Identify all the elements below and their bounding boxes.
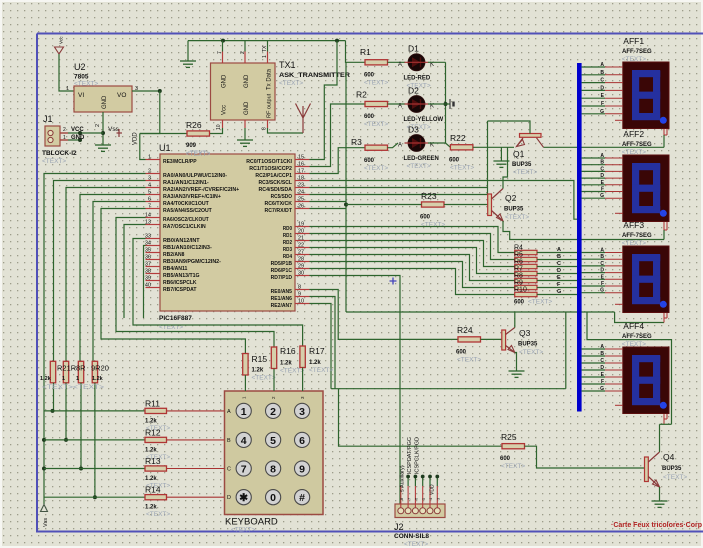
AFF4 segment pin D (582, 369, 605, 371)
svg-text:C: C (600, 78, 604, 84)
key 7 (236, 461, 251, 476)
svg-text:17: 17 (298, 169, 304, 175)
svg-text:AFF-7SEG: AFF-7SEG (622, 142, 652, 148)
wire pin6 RA4 to R20 (93, 202, 146, 362)
junction dot rail row B (42, 438, 46, 442)
svg-text:3: 3 (148, 176, 151, 182)
svg-text:2: 2 (148, 169, 151, 175)
wire R9 to bus (537, 287, 577, 289)
svg-text:26: 26 (298, 204, 304, 210)
U1 left pin 6 RA4/T0CKI/C1OUT (146, 201, 161, 203)
junction dot TX rail (221, 39, 225, 43)
svg-text:A: A (398, 104, 402, 110)
U1 left pin 3 RA1/AN1/C12IN1- (146, 180, 161, 182)
pin 7 TX1 GND (222, 52, 224, 64)
svg-text:RA5/AN4/SS/C2OUT: RA5/AN4/SS/C2OUT (163, 208, 212, 214)
transistor Q4 BUP35 (645, 457, 649, 482)
svg-text:1: 1 (62, 376, 65, 382)
resistor R15 (243, 354, 248, 376)
LED D2 (408, 96, 425, 113)
svg-text:600: 600 (514, 300, 525, 306)
svg-text:29: 29 (298, 264, 304, 270)
svg-text:LED-RED: LED-RED (404, 76, 431, 82)
svg-text:<TEXT>: <TEXT> (404, 541, 428, 548)
svg-text:F: F (601, 187, 604, 193)
svg-text:8R: 8R (76, 364, 86, 373)
AFF4 dp stub (615, 404, 623, 406)
svg-text:<TEXT>: <TEXT> (501, 463, 525, 470)
svg-text:·Carte Feux tricolores·Corp: ·Carte Feux tricolores·Corp (611, 522, 702, 529)
resistor R14 (145, 495, 167, 500)
svg-text:600: 600 (420, 215, 431, 221)
svg-text:RA3/AN3/VREF+/C1IN+: RA3/AN3/VREF+/C1IN+ (163, 194, 222, 200)
svg-text:LED-GREEN: LED-GREEN (404, 156, 439, 162)
svg-text:AFF-7SEG: AFF-7SEG (622, 49, 652, 55)
wire J1 row VCC (60, 132, 103, 134)
AFF4 segment pin B (582, 355, 605, 357)
wire pin4 RA2 to R18 (66, 188, 146, 362)
svg-text:R23: R23 (421, 191, 437, 201)
U1 right pin 23 RC4/SDI/SDA (295, 187, 310, 189)
svg-text:7: 7 (241, 464, 247, 476)
U1 left pin 34 RB1/AN10/C12IN3- (146, 245, 161, 247)
U1 left pin 36 RB3/AN9/PGM/C12IN2- (146, 259, 161, 261)
segment bus vertical blue (577, 63, 582, 412)
svg-text:C: C (557, 261, 561, 267)
junction dot VCC (78, 131, 82, 135)
svg-text:RF output: RF output (267, 93, 273, 118)
svg-text:R24: R24 (457, 325, 473, 335)
svg-text:40: 40 (145, 283, 151, 289)
pin 1 TX1 TxData with TX net label (267, 52, 269, 64)
svg-text:3: 3 (299, 406, 305, 418)
svg-text:CONN-SIL8: CONN-SIL8 (394, 533, 429, 540)
svg-text:C: C (600, 166, 604, 172)
svg-text:38: 38 (145, 269, 151, 275)
J2 pin circle 2 (405, 508, 411, 514)
key 9 (295, 461, 310, 476)
resistor R21 (50, 361, 55, 383)
svg-text:TBLOCK-I2: TBLOCK-I2 (42, 150, 77, 157)
AFF3 segment pin A (582, 252, 605, 254)
svg-text:4: 4 (241, 435, 247, 447)
svg-text:PIC16F887: PIC16F887 (159, 315, 192, 322)
wire RE0 to R24 (310, 290, 459, 340)
svg-text:600: 600 (500, 456, 511, 462)
svg-text:<TEXT>: <TEXT> (622, 240, 646, 247)
svg-text:<TEXT>: <TEXT> (519, 349, 543, 356)
svg-text:ICSPCLK/PGD: ICSPCLK/PGD (415, 437, 421, 474)
resistor R18 (63, 361, 68, 383)
ground symbol under U2 (95, 144, 111, 146)
svg-text:19: 19 (298, 222, 304, 228)
AFF2 segment pin A (582, 157, 605, 159)
AFF4 segment pin A (582, 348, 605, 350)
wire R24 to Q3 base (481, 338, 502, 340)
J2 pin circle 4 (420, 508, 426, 514)
svg-text:AFF3: AFF3 (623, 220, 644, 230)
svg-text:GND: GND (244, 101, 250, 115)
svg-text:D: D (600, 365, 604, 371)
svg-text:B: B (600, 70, 604, 76)
svg-text:RA4/T0CKI/C1OUT: RA4/T0CKI/C1OUT (163, 201, 209, 207)
U1 left pin 13 RA7/OSC1/CLKIN (146, 224, 161, 226)
svg-text:1.2k: 1.2k (145, 418, 157, 424)
svg-text:<TEXT>: <TEXT> (231, 527, 255, 534)
svg-text:<TEXT>: <TEXT> (450, 165, 474, 172)
U1 right pin 28 RD5/P1B (295, 261, 310, 263)
U1 left pin 40 RB7/ICSPDAT (146, 287, 161, 289)
AFF1 segment pin A (582, 66, 605, 68)
svg-text:RB5/AN13/T1G: RB5/AN13/T1G (163, 273, 200, 279)
svg-text:<TEXT>: <TEXT> (252, 375, 276, 382)
svg-text:8: 8 (270, 464, 276, 476)
svg-text:R11: R11 (145, 398, 160, 408)
svg-text:24: 24 (298, 190, 304, 196)
wire TX rail to R1 (346, 41, 366, 63)
wire Q2 collector up to Q1 net (503, 147, 508, 188)
svg-text:U1: U1 (159, 143, 171, 153)
svg-text:G: G (600, 386, 604, 392)
wire R4 to bus (537, 252, 577, 254)
svg-text:RD4: RD4 (283, 254, 293, 260)
svg-text:R14: R14 (145, 485, 161, 495)
ground tap Q1 emitter (500, 147, 502, 161)
J2 pin circle 5 (427, 508, 433, 514)
svg-text:8: 8 (298, 285, 301, 291)
wire keyboard row A (44, 410, 167, 412)
wire pin13 RA7 down (124, 225, 146, 319)
svg-text:8: 8 (262, 127, 268, 130)
U1 left pin 5 RA3/AN3/VREF+/C1IN+ (146, 194, 161, 196)
junction dot TX corner (335, 39, 339, 43)
wire long horizontal mid (331, 388, 566, 390)
svg-text:7805: 7805 (74, 74, 89, 81)
resistor R26 (187, 131, 210, 136)
svg-text:RD1: RD1 (283, 233, 293, 239)
svg-text:600: 600 (364, 114, 375, 120)
resistor R25 (502, 444, 525, 449)
AFF4 segment pin C (582, 362, 605, 364)
svg-text:✱: ✱ (239, 492, 248, 504)
svg-text:RD2: RD2 (283, 240, 292, 246)
wire Q4 emitter to ground (659, 487, 661, 501)
J2 pin wire 5 (429, 486, 431, 508)
7-segment display AFF3 (623, 246, 669, 313)
svg-text:<TEXT>: <TEXT> (280, 368, 304, 375)
svg-text:ICSPDAT/PGC: ICSPDAT/PGC (407, 437, 413, 474)
svg-text:B: B (600, 351, 604, 357)
svg-text:BUP35: BUP35 (662, 466, 682, 472)
svg-text:R2: R2 (356, 90, 367, 100)
svg-text:<TEXT>: <TEXT> (622, 56, 646, 63)
svg-text:RD0: RD0 (283, 226, 292, 232)
svg-text:18: 18 (298, 176, 304, 182)
pin 8 TX1 RF output to antenna (267, 120, 269, 128)
wire R6 to bus (537, 266, 577, 268)
svg-text:RA0/AN0/ULPWU/C12IN0-: RA0/AN0/ULPWU/C12IN0- (163, 173, 227, 179)
resistor R10 (515, 292, 537, 296)
svg-text:Vcc: Vcc (59, 36, 64, 44)
wire RD3 to R7 (310, 248, 515, 274)
svg-text:5: 5 (270, 435, 276, 447)
svg-text:VO: VO (117, 92, 126, 99)
svg-text:RD7/P1D: RD7/P1D (271, 275, 292, 281)
svg-text:AFF1: AFF1 (623, 36, 644, 46)
wire RE2 join (310, 304, 332, 389)
svg-text:B: B (557, 254, 561, 260)
wire rail to ground left of TX1 (187, 41, 189, 61)
key ✱ (236, 490, 251, 505)
svg-text:A: A (600, 62, 604, 68)
svg-text:R25: R25 (501, 432, 517, 442)
svg-text:10: 10 (216, 124, 222, 130)
svg-text:R8: R8 (514, 273, 523, 280)
svg-text:R4: R4 (514, 245, 523, 252)
ground flag Vss bottom-left (41, 505, 48, 512)
J2 pin circle 3 (412, 508, 418, 514)
AFF4 segment pin G (582, 390, 605, 392)
svg-text:<TEXT>: <TEXT> (74, 81, 98, 88)
J2 pin circle 6 (434, 508, 440, 514)
resistor R17 (300, 346, 305, 368)
svg-text:RD3: RD3 (283, 247, 293, 253)
resistor R22 (450, 145, 473, 150)
U1 right pin 18 RC3/SCK/SCL (295, 180, 310, 182)
wire RC7 stub (310, 208, 347, 210)
wire RC3 long to bus entry (310, 181, 578, 220)
resistor R24 (458, 337, 481, 342)
svg-text:<TEXT>: <TEXT> (528, 299, 552, 306)
svg-text:RC5/SDO: RC5/SDO (271, 194, 293, 200)
wire TX top rail (188, 40, 346, 42)
svg-text:D: D (557, 268, 561, 274)
7-segment display AFF4 (623, 347, 669, 414)
svg-text:<TEXT>: <TEXT> (146, 511, 170, 518)
svg-text:D: D (600, 268, 604, 274)
svg-text:GND: GND (222, 74, 228, 88)
wire branch to AFF4 common (587, 312, 672, 424)
resistor R9 (515, 285, 537, 289)
ground symbol left of TX1 (180, 60, 196, 62)
wire U2 GND down (102, 112, 104, 145)
svg-text:C: C (600, 261, 604, 267)
svg-text:R15: R15 (252, 354, 268, 364)
svg-text:30: 30 (298, 271, 304, 277)
svg-text:B: B (227, 438, 231, 444)
svg-text:23: 23 (298, 183, 304, 189)
wire RD1 to R5 (310, 234, 515, 260)
svg-text:25: 25 (298, 197, 304, 203)
wire pin33 RB0 to R17 (133, 239, 303, 347)
svg-text:33: 33 (145, 234, 151, 240)
svg-text:1: 1 (66, 86, 69, 92)
resistor R8 (515, 278, 537, 282)
svg-text:VDD: VDD (133, 132, 139, 145)
svg-text:34: 34 (145, 241, 151, 247)
resistor R1 (365, 60, 388, 65)
wire Q2 emitter to AFF2 common (503, 221, 664, 240)
AFF3 segment pin G (582, 292, 605, 294)
svg-text:39: 39 (145, 276, 151, 282)
svg-text:<TEXT>: <TEXT> (513, 169, 537, 176)
svg-text:R17: R17 (309, 346, 325, 356)
svg-text:D1: D1 (408, 44, 419, 54)
J2 pin wire 2 (407, 486, 409, 508)
svg-text:<TEXT>: <TEXT> (364, 165, 388, 172)
U1 right pin 19 RD0 (295, 226, 310, 228)
wire pin3 RA1 to R21 (54, 181, 146, 362)
U1 right pin 10 RE2/AN7 (295, 303, 310, 305)
wire Q1 base (488, 121, 531, 134)
transmitter TX1 ASK (211, 63, 276, 120)
svg-text:s Auxiliary): s Auxiliary) (400, 465, 406, 492)
svg-text:1.2k: 1.2k (145, 447, 157, 453)
wire keyboard row C (44, 468, 167, 470)
wire R3 jog to D3 (388, 143, 399, 148)
U1 right pin 22 RD3 (295, 247, 310, 249)
svg-text:6: 6 (148, 197, 151, 203)
svg-text:4: 4 (148, 183, 151, 189)
wire R7 to bus (537, 273, 577, 275)
wire RC4 to Q1 base vertical (310, 187, 488, 189)
svg-text:R7: R7 (514, 266, 523, 273)
selection cross marker (390, 278, 397, 285)
wire keyboard row D (44, 496, 167, 498)
svg-text:1.2k: 1.2k (280, 361, 292, 367)
keypad KEYBOARD (225, 391, 324, 515)
svg-text:RA1/AN1/C12IN1-: RA1/AN1/C12IN1- (163, 180, 209, 186)
svg-text:AFF2: AFF2 (623, 129, 644, 139)
svg-text:R1: R1 (360, 47, 371, 57)
svg-text:9: 9 (299, 464, 305, 476)
svg-text:7: 7 (217, 51, 223, 54)
U1 right pin 27 RD4 (295, 254, 310, 256)
svg-text:RD5/P1B: RD5/P1B (271, 261, 292, 267)
resistor R20 (92, 361, 97, 383)
AFF1 segment pin D (582, 89, 605, 91)
U1 left pin 35 RB2/AN8 (146, 252, 161, 254)
svg-text:R9: R9 (514, 280, 523, 287)
svg-text:R21R: R21R (57, 364, 77, 373)
wire Q1 base column to Q2 (487, 121, 489, 194)
U1 right pin 29 RD6/P1C (295, 268, 310, 270)
svg-text:Vcc: Vcc (222, 105, 228, 115)
svg-text:1.2k: 1.2k (309, 360, 321, 366)
junction dot row D pullup (93, 495, 97, 499)
svg-text:<TEXT>: <TEXT> (309, 367, 333, 374)
J2 pin circle 1 (398, 508, 404, 514)
U1 left pin 37 RB4/AN11 (146, 266, 161, 268)
wire RD7 to J2 pin1 (310, 276, 401, 506)
svg-text:9: 9 (298, 292, 301, 298)
junction dot row A pullup (51, 409, 55, 413)
junction dot cathode column (444, 102, 448, 106)
AFF3 segment pin F (582, 285, 605, 287)
J2 pin wire 1 (400, 486, 402, 508)
junction dot rail row C (42, 467, 46, 471)
svg-text:Q4: Q4 (663, 452, 675, 462)
svg-text:9R20: 9R20 (91, 364, 109, 373)
svg-text:RA7/OSC1/CLKIN: RA7/OSC1/CLKIN (163, 224, 206, 230)
svg-text:1: 1 (262, 55, 268, 58)
svg-text:RE3/MCLR/PP: RE3/MCLR/PP (163, 159, 197, 165)
key 3 (295, 403, 310, 418)
wire flag to U2 VI (59, 54, 74, 91)
svg-text:B: B (600, 160, 604, 166)
svg-text:A: A (557, 247, 561, 253)
svg-text:RB0/AN12/INT: RB0/AN12/INT (163, 238, 200, 244)
svg-text:VCC: VCC (71, 127, 84, 133)
resistor R23 (422, 202, 445, 207)
svg-text:<TEXT>: <TEXT> (364, 121, 388, 128)
wire R5 to bus (537, 259, 577, 261)
AFF4 common stubs (663, 414, 665, 425)
wire Q3 collector to net (514, 312, 516, 328)
U1 left pin 14 RA6/OSC2/CLKOUT (146, 217, 161, 219)
antenna symbol (296, 104, 311, 134)
svg-text:RA6/OSC2/CLKOUT: RA6/OSC2/CLKOUT (163, 217, 209, 223)
svg-text:R10: R10 (514, 287, 527, 294)
svg-text:A: A (227, 409, 231, 415)
svg-text:RD6/P1C: RD6/P1C (271, 268, 293, 274)
svg-text:A: A (398, 62, 402, 68)
svg-text:RA2/AN2/VREF-/CVREF/C2IN+: RA2/AN2/VREF-/CVREF/C2IN+ (163, 187, 240, 193)
wire Q1 collector to AFF1 common (544, 146, 665, 148)
wire R22 to Q1 emitter (473, 146, 514, 148)
key 2 (266, 403, 281, 418)
AFF2 segment pin B (582, 164, 605, 166)
svg-text:7: 7 (148, 204, 151, 210)
wire pin34 RB1 down (144, 246, 146, 319)
AFF3 common stubs (663, 313, 665, 323)
junction dot row B pullup (64, 438, 68, 442)
svg-text:VDD: VDD (430, 484, 436, 495)
resistor R5 (515, 257, 537, 261)
wire Q4 collector to AFF4 (659, 424, 661, 452)
voltage regulator U2 7805 (74, 86, 132, 112)
svg-text:Q1: Q1 (513, 149, 525, 159)
svg-text:27: 27 (298, 250, 304, 256)
svg-text:C: C (227, 467, 231, 473)
connector J2 CONN-SIL8 (395, 504, 445, 518)
wire RC0 to TX rail jog (310, 41, 338, 160)
svg-text:RE1/AN6: RE1/AN6 (271, 296, 293, 302)
svg-text:RC2/P1A/CCP1: RC2/P1A/CCP1 (255, 173, 292, 179)
svg-text:RB7/ICSPDAT: RB7/ICSPDAT (163, 287, 197, 293)
wire pin5 RA3 to R19 (80, 195, 146, 362)
wire R23 left to column (346, 204, 422, 206)
svg-text:A: A (600, 344, 604, 350)
U1 right pin 16 RC1/T1OSI/CCP2 (295, 166, 310, 168)
key # (295, 490, 310, 505)
svg-text:2: 2 (270, 406, 276, 418)
AFF3 segment pin E (582, 278, 605, 280)
U1 left pin 39 RB6/ICSPCLK (146, 280, 161, 282)
U1 right pin 30 RD7/P1D (295, 275, 310, 277)
svg-text:600: 600 (364, 158, 375, 164)
svg-text:TX: TX (262, 45, 268, 52)
transistor Q1 BUP35 (520, 134, 542, 138)
svg-text:2: 2 (240, 51, 246, 54)
svg-text:<TEXT>: <TEXT> (421, 222, 445, 229)
svg-text:D: D (600, 85, 604, 91)
svg-text:GND: GND (71, 135, 85, 141)
svg-text:1.2k: 1.2k (92, 376, 104, 382)
svg-text:1: 1 (148, 155, 151, 161)
svg-text:GND: GND (244, 74, 250, 88)
U1 left pin 4 RA2/AN2/VREF-/CVREF/C2IN+ (146, 187, 161, 189)
